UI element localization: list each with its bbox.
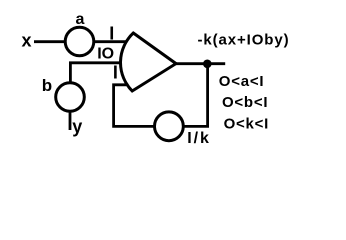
- wire potentiometer a to amplifier input 1: [94, 40, 126, 43]
- svg-text:I/k: I/k: [187, 130, 211, 147]
- svg-text:O<b<I: O<b<I: [222, 94, 268, 111]
- svg-text:y: y: [72, 116, 82, 136]
- wire y output of potentiometer b: [69, 112, 72, 131]
- junction dot (output node): [203, 60, 212, 69]
- svg-text:b: b: [42, 76, 52, 95]
- wire 10-input: from b branch corner to amplifier: [70, 63, 126, 82]
- potentiometer b: [56, 83, 85, 112]
- op-amp A1 (summing amplifier): [121, 33, 176, 91]
- svg-text:IO: IO: [97, 45, 114, 62]
- svg-text:a: a: [76, 11, 85, 28]
- svg-text:O<k<I: O<k<I: [224, 115, 269, 132]
- wire feedback: amp input stub, down, to potentiometer 1/k: [114, 85, 155, 127]
- potentiometer 1/k: [155, 112, 184, 141]
- svg-text:I: I: [109, 24, 114, 44]
- wire x to potentiometer a: [34, 40, 66, 43]
- svg-text:-k(ax+IOby): -k(ax+IOby): [198, 32, 290, 49]
- potentiometer a: [65, 27, 94, 56]
- svg-text:O<a<I: O<a<I: [219, 73, 264, 90]
- wire amplifier output: [175, 62, 225, 65]
- svg-text:I: I: [113, 63, 118, 83]
- wire from potentiometer 1/k up to output node: [184, 64, 208, 127]
- svg-text:x: x: [22, 31, 32, 51]
